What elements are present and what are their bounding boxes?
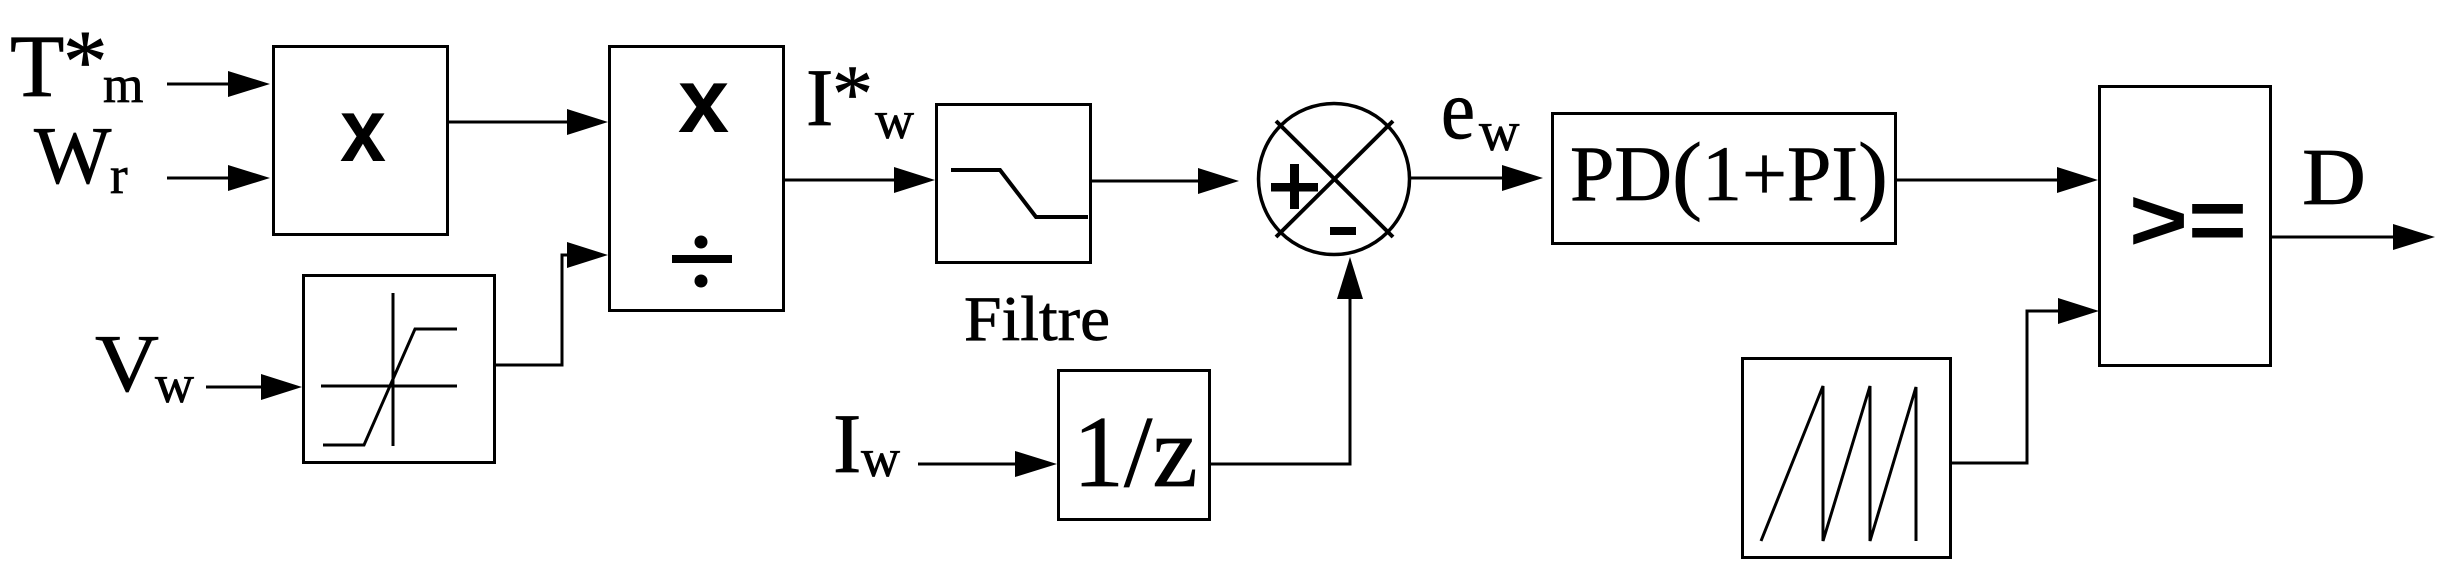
svg-text:T: T: [10, 18, 64, 116]
block delay 1/z: [1059, 371, 1210, 520]
svg-text:V: V: [95, 318, 159, 409]
block PD(1+PI): [1553, 114, 1896, 244]
block saturation: [304, 276, 495, 463]
svg-text:w: w: [155, 354, 194, 414]
block comparator (greater-equal): [2100, 87, 2271, 366]
svg-text:*: *: [832, 48, 873, 139]
svg-text:PD(1+PI): PD(1+PI): [1570, 126, 1888, 223]
block filter: [937, 105, 1091, 263]
node Vw input label: [95, 318, 194, 414]
wire saturation to divider: [496, 242, 608, 365]
svg-text:x: x: [678, 50, 729, 152]
svg-text:>=: >=: [2129, 170, 2247, 269]
svg-text:w: w: [1479, 101, 1520, 163]
wire T*m input arrow: [167, 71, 270, 97]
svg-text:W: W: [34, 110, 112, 201]
wire Vw input arrow: [206, 374, 302, 400]
svg-text:w: w: [861, 428, 900, 488]
svg-text:w: w: [875, 90, 914, 150]
block product P1 (x): [274, 47, 448, 235]
wire divider to filter: [785, 167, 935, 193]
svg-text:e: e: [1441, 63, 1475, 157]
svg-text:I: I: [833, 397, 861, 491]
wire Wr input arrow: [167, 165, 270, 191]
svg-text:m: m: [103, 57, 143, 114]
wire filter to summer: [1092, 168, 1239, 194]
svg-text:D: D: [2302, 134, 2366, 222]
svg-text:1/z: 1/z: [1073, 396, 1198, 509]
svg-text:r: r: [110, 147, 128, 205]
wire PD to comparator: [1897, 167, 2098, 193]
node T*m input label: [10, 13, 143, 116]
summer junction S1: [1259, 104, 1410, 255]
block divider (x over divide): [610, 47, 784, 311]
wire sawtooth to comparator: [1952, 298, 2099, 463]
block sawtooth generator: [1743, 359, 1951, 558]
node Iw input label: [833, 397, 900, 491]
svg-text:*: *: [63, 13, 108, 111]
wire comparator output arrow: [2272, 224, 2435, 250]
node Wr input label: [34, 110, 128, 205]
wire summer to PD: [1411, 165, 1543, 191]
wire 1/z to summer minus input: [1211, 257, 1363, 464]
node I*w output label: [806, 48, 914, 150]
svg-text:Filtre: Filtre: [964, 284, 1110, 354]
node ew label: [1441, 63, 1520, 163]
svg-text:I: I: [806, 52, 833, 143]
wire product P1 to divider: [449, 109, 608, 135]
svg-text:x: x: [340, 81, 386, 181]
wire Iw input arrow: [918, 451, 1057, 477]
